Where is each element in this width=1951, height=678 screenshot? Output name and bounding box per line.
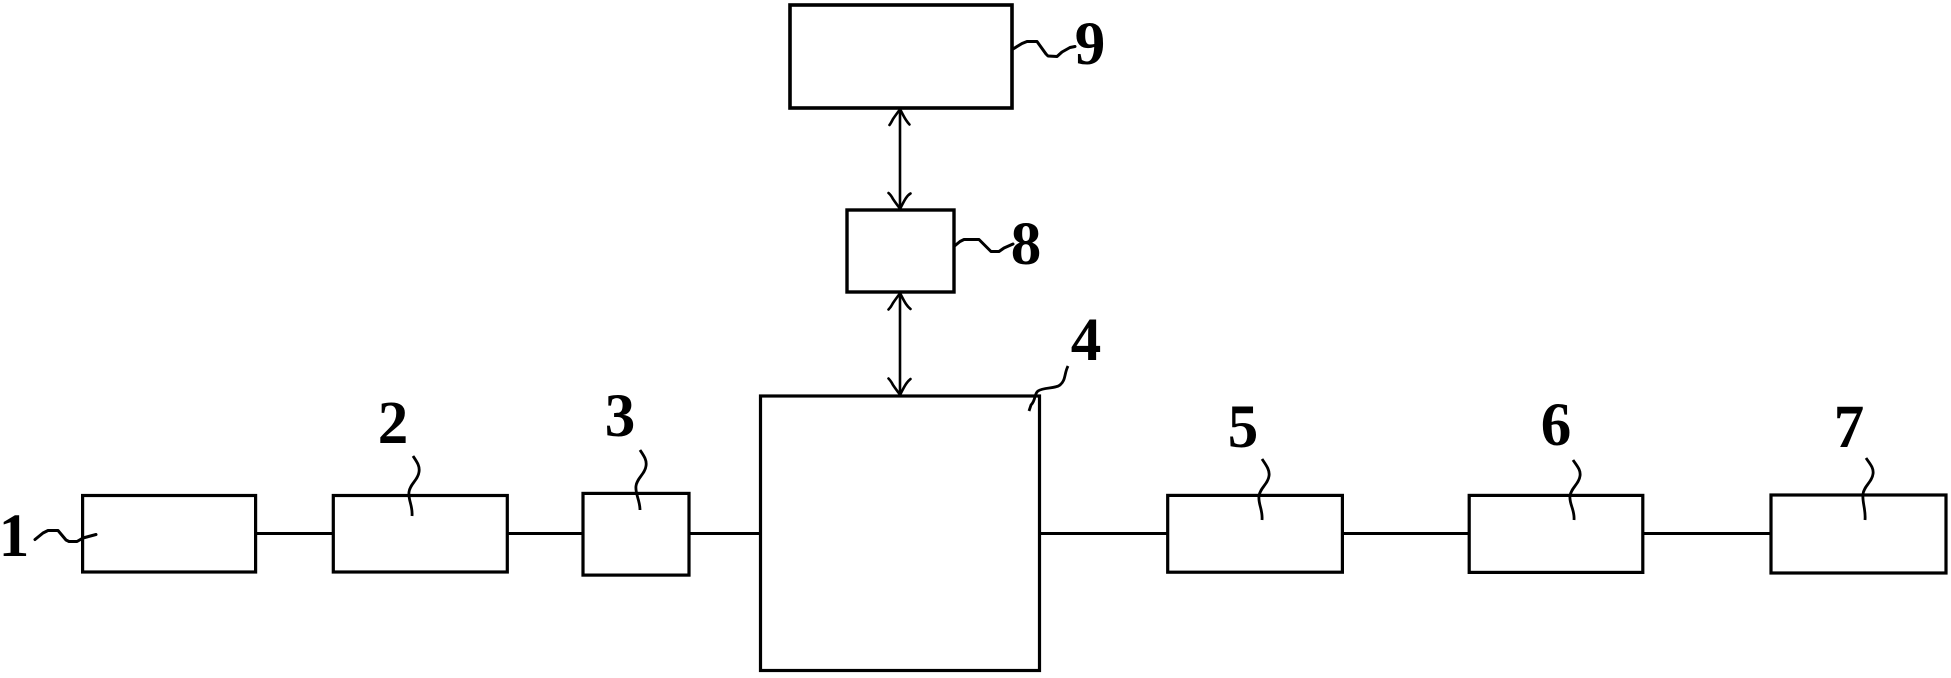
svg-text:3: 3 [605,383,636,450]
wire 3-4 [689,532,760,535]
bidirectional arrow 8-4 [889,293,911,395]
leader squiggle to 4 [1029,366,1068,411]
leader squiggle to 6 [1570,460,1580,520]
svg-text:9: 9 [1075,11,1106,78]
block 6 [1469,495,1643,572]
block 2 [333,496,507,573]
svg-text:4: 4 [1071,307,1102,374]
svg-text:6: 6 [1541,392,1572,459]
svg-text:2: 2 [378,390,409,457]
block 3 [583,493,689,575]
svg-text:5: 5 [1228,394,1259,461]
block 8 [847,210,954,292]
block 4 [761,396,1040,671]
block 7 [1771,495,1946,573]
leader squiggle to 7 [1863,458,1873,520]
block 1 [83,496,256,573]
wire 6-7 [1643,532,1771,535]
block 9 [790,5,1012,108]
block 5 [1168,495,1343,572]
leader squiggle to 1 [35,531,96,542]
wire 4-5 [1040,532,1168,535]
leader squiggle to 9 [1013,42,1075,57]
svg-text:7: 7 [1834,394,1865,461]
wire 5-6 [1342,532,1469,535]
wire 2-3 [507,532,583,535]
leader squiggle to 8 [955,240,1014,252]
svg-text:1: 1 [0,503,29,570]
leader squiggle to 3 [636,450,646,510]
wire 1-2 [256,532,333,535]
leader squiggle to 2 [409,456,419,516]
svg-text:8: 8 [1011,211,1042,278]
leader squiggle to 5 [1259,459,1269,520]
bidirectional arrow 9-8 [889,109,911,209]
